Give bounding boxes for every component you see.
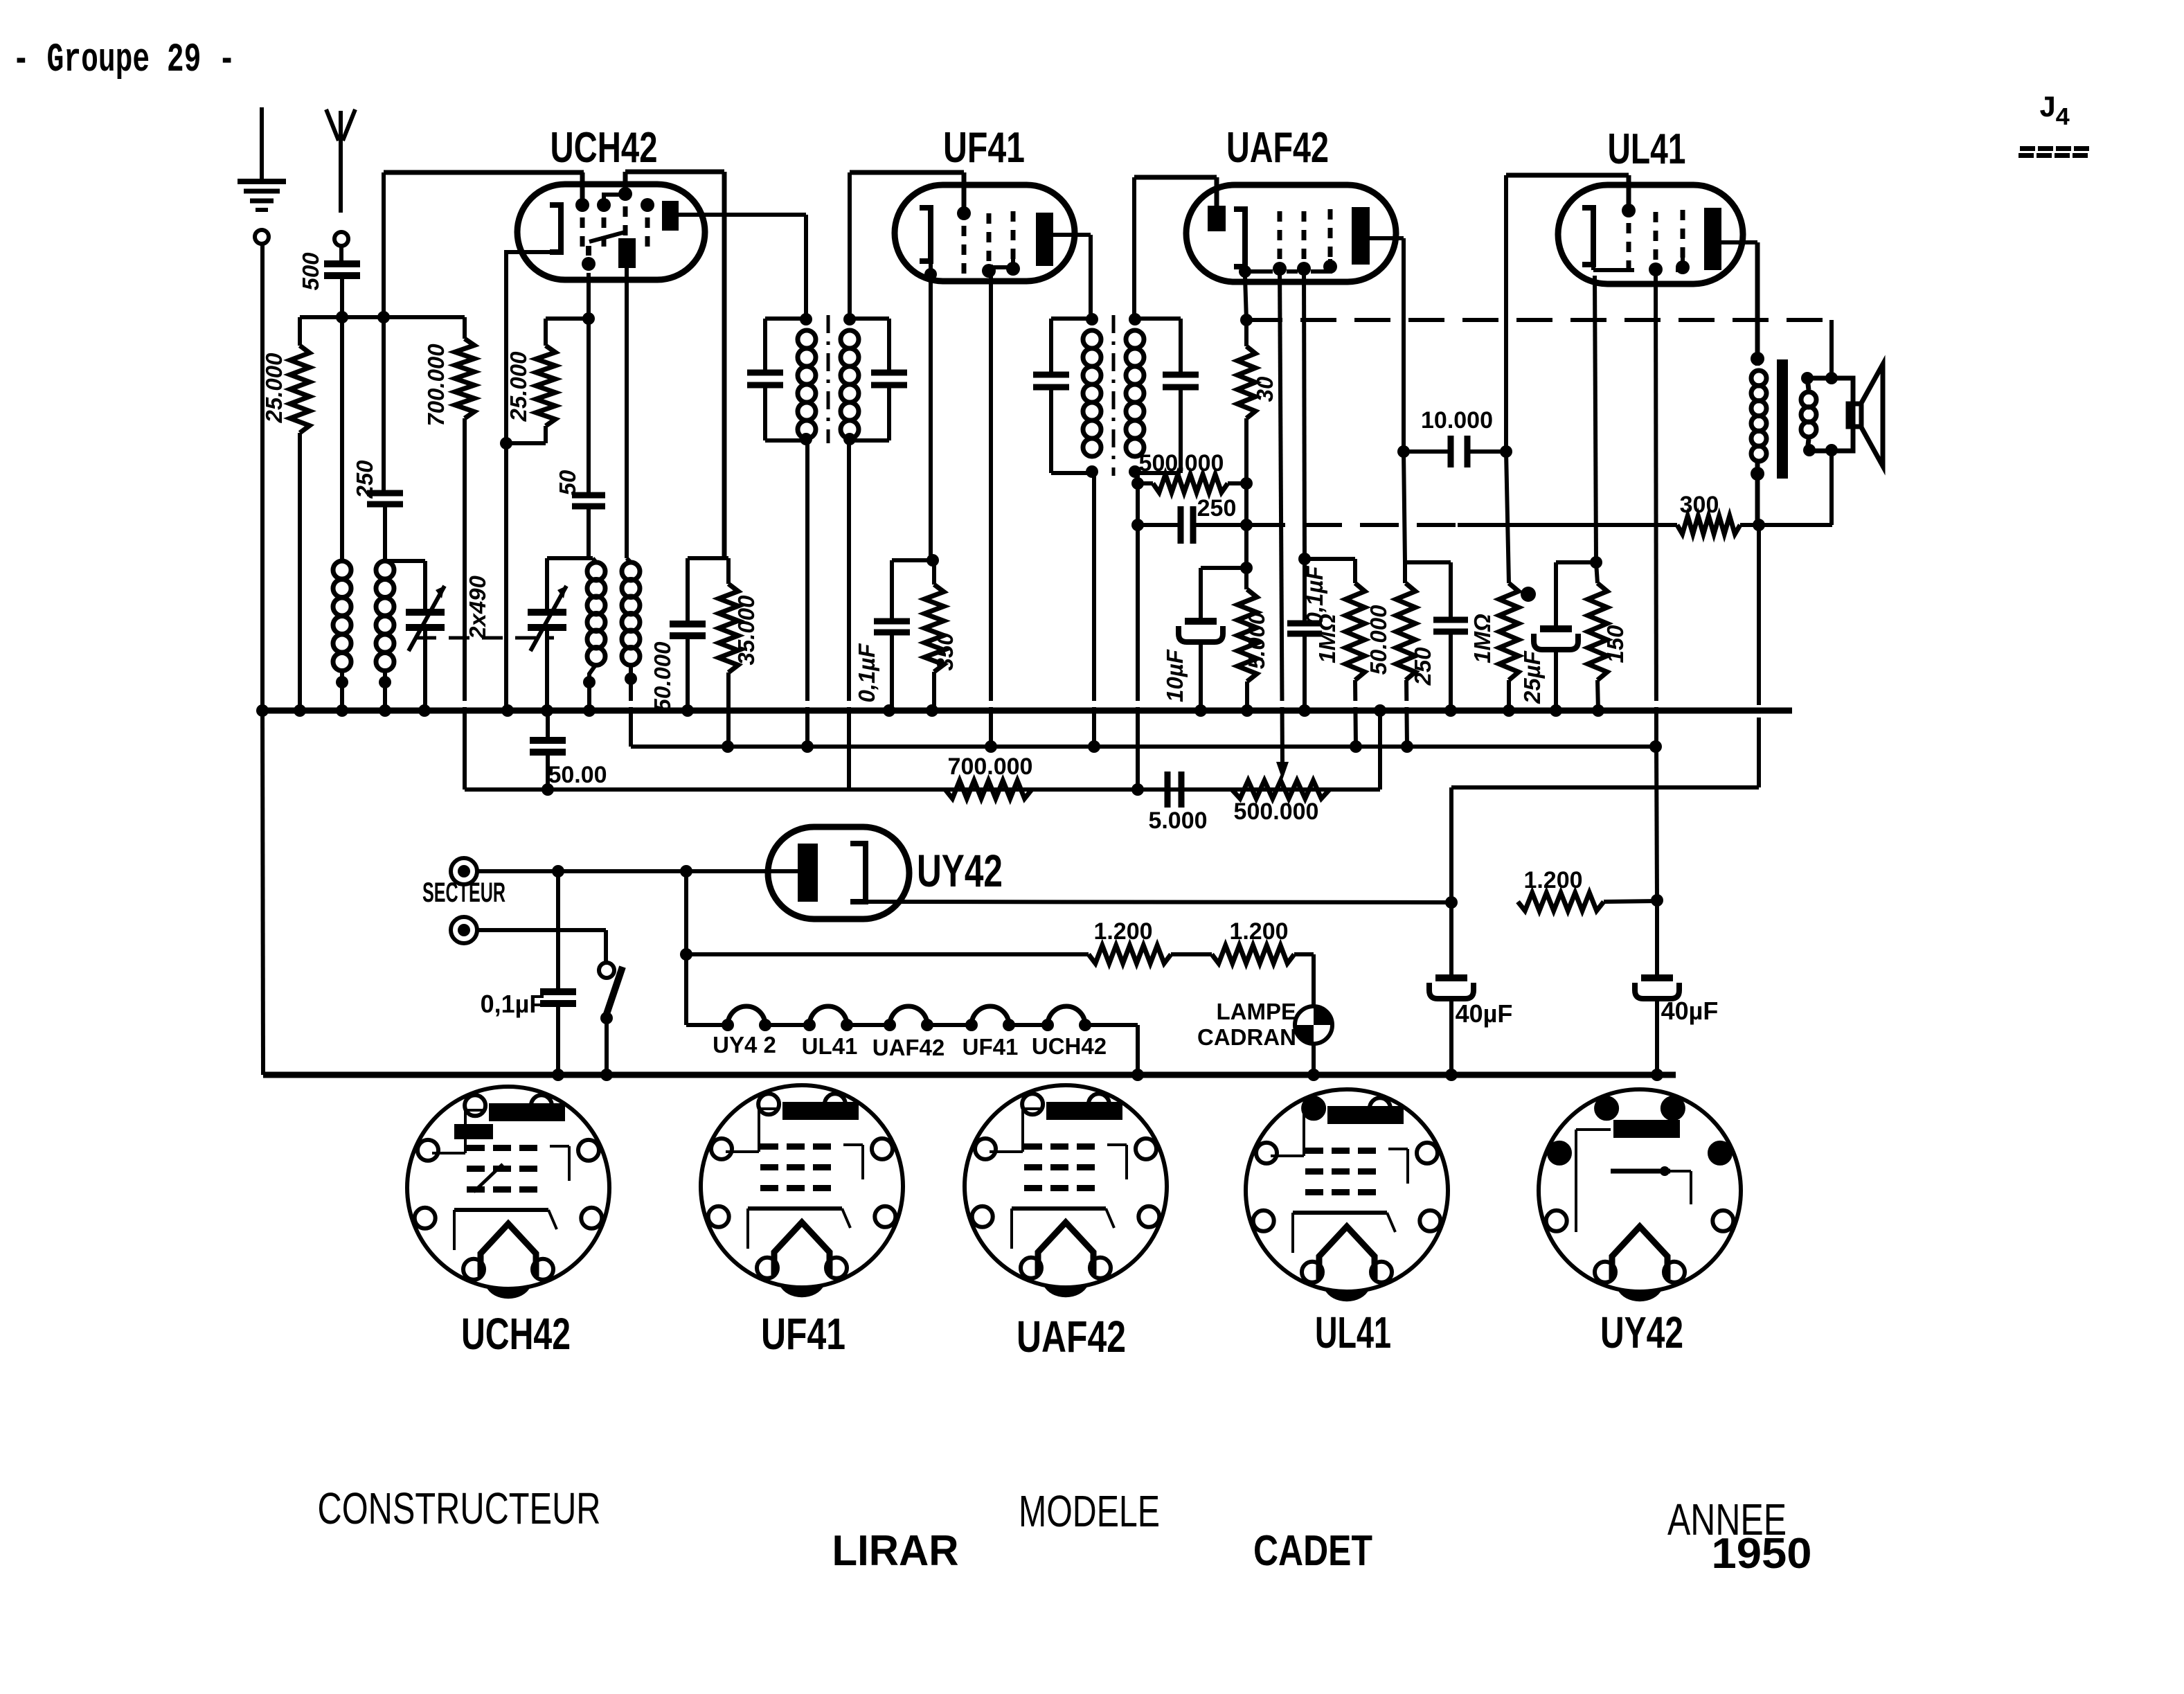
svg-text:25.000: 25.000	[505, 351, 531, 422]
wire varcap2 top	[545, 558, 549, 612]
UCH42 hexode plate wire	[679, 213, 806, 217]
wire top rail 3	[850, 170, 964, 175]
svg-text:30: 30	[1252, 376, 1278, 402]
wire filament start	[684, 954, 688, 1025]
capacitor 500	[324, 260, 360, 267]
resistor 700.000 osc	[455, 339, 474, 418]
UAF42 grid3 column	[1328, 209, 1333, 220]
capacitor 10uF	[1185, 618, 1217, 625]
svg-text:250: 250	[352, 460, 377, 499]
wire Bplus horizontal	[1451, 785, 1759, 790]
wire 30 to node	[1244, 418, 1248, 483]
resistor 50.000 plate	[1403, 562, 1407, 583]
tube UL41 outline	[1558, 185, 1743, 284]
wire AVC to frame	[1829, 320, 1834, 378]
line D left	[1138, 523, 1181, 527]
UCH42 cathode	[550, 205, 561, 252]
UF41 grid3 column	[1011, 211, 1016, 222]
svg-text:1.200: 1.200	[1523, 867, 1582, 893]
wire varcap2 bottom	[545, 627, 549, 711]
wire primary-bottom to Bplus	[1757, 525, 1761, 705]
IFT1 core	[827, 315, 830, 443]
tube UY42 outline	[768, 827, 909, 919]
wire varcap1 top	[423, 561, 427, 612]
UF41 grid2 column	[987, 213, 992, 224]
svg-text:350: 350	[932, 632, 958, 671]
UCH42 cathode wire	[506, 252, 561, 443]
svg-text:1MΩ: 1MΩ	[1314, 614, 1340, 663]
secteur terminal 2	[451, 917, 477, 943]
node 50.000	[1405, 560, 1451, 564]
svg-text:40µF: 40µF	[1661, 997, 1719, 1025]
bus crossing hops	[461, 701, 468, 707]
wire cathode junction	[500, 437, 512, 449]
svg-text:UF41: UF41	[761, 1309, 845, 1359]
wire between droppers	[1171, 952, 1212, 956]
node UF41 cathode	[892, 558, 934, 562]
line B AVC rail	[465, 787, 1380, 792]
IFT2 top right	[1135, 316, 1181, 321]
UCH42 grid4 column	[641, 198, 654, 212]
IFT2 top left	[1051, 316, 1092, 321]
OT secondary coil	[1801, 392, 1816, 407]
svg-text:40µF: 40µF	[1456, 999, 1513, 1028]
svg-text:LIRAR: LIRAR	[832, 1527, 959, 1575]
coil L4 osc plate	[622, 562, 640, 580]
resistor 1M first	[1353, 559, 1357, 583]
wire L4 top bend	[627, 558, 631, 562]
wire 25uF top	[1554, 562, 1558, 629]
wire secteur line 2	[477, 928, 606, 932]
node UL41 cathode row	[1556, 560, 1596, 564]
wire cathode to bus	[504, 443, 508, 711]
resistor 1.200 a	[1089, 945, 1171, 963]
capacitor 0,1uF det	[1303, 559, 1307, 623]
svg-text:1950: 1950	[1712, 1530, 1812, 1578]
variable capacitor 2x490 ant	[406, 609, 445, 616]
IFT2 primary coil	[1083, 330, 1101, 348]
IFT2 bottom left	[1051, 471, 1092, 475]
UL41 grid2 column	[1654, 212, 1658, 222]
UAF42 g2 wire	[1304, 263, 1305, 559]
IFT2 core	[1112, 315, 1116, 476]
svg-text:UCH42: UCH42	[461, 1309, 571, 1359]
wire C250a to coil2	[383, 504, 387, 561]
svg-text:250: 250	[1410, 647, 1435, 686]
IFT1 secondary coil	[841, 330, 859, 348]
svg-text:MODELE: MODELE	[1019, 1486, 1160, 1536]
IFT1 top left	[765, 316, 806, 321]
secteur terminal 1	[451, 858, 477, 884]
IFT1 primary coil	[798, 330, 816, 348]
wire lamp to rail	[1312, 1044, 1316, 1075]
UF41 g2 wire down	[989, 265, 993, 747]
ground symbol	[238, 179, 286, 184]
ground lead wire	[260, 107, 264, 181]
svg-text:250: 250	[1197, 495, 1237, 521]
line D dashed mid	[1246, 523, 1458, 527]
wire L4 bottom to line A	[629, 664, 633, 747]
resistor 1M second	[1506, 452, 1509, 583]
wire secteur line 1	[477, 869, 798, 873]
svg-text:700.000: 700.000	[423, 344, 449, 427]
svg-text:300: 300	[1680, 492, 1719, 518]
wire chain to 10uF node	[1244, 525, 1248, 568]
svg-text:500.000: 500.000	[1234, 799, 1319, 825]
rail dots	[552, 1069, 564, 1081]
svg-text:1.200: 1.200	[1093, 918, 1152, 945]
wire C500 to node	[340, 276, 344, 317]
resistor 700.000 AVC	[945, 781, 1032, 799]
svg-text:LAMPE: LAMPE	[1217, 999, 1297, 1024]
svg-text:1.200: 1.200	[1229, 918, 1288, 945]
svg-text:UL41: UL41	[1608, 125, 1686, 173]
wire cathode chain	[1244, 483, 1248, 525]
UL41 grid1 column	[1627, 175, 1631, 211]
UCH42 hexode plate	[662, 201, 679, 231]
svg-text:UF41: UF41	[943, 124, 1025, 172]
node antenna-coil	[336, 311, 348, 323]
svg-text:25µF: 25µF	[1519, 650, 1545, 704]
speaker cone	[1861, 364, 1883, 466]
svg-text:2x490: 2x490	[465, 575, 490, 639]
speaker frame	[1807, 378, 1853, 451]
IFT2 left side	[1049, 319, 1053, 375]
antenna symbol	[339, 111, 343, 142]
UL41 cathode wire	[1595, 276, 1596, 562]
IFT1 primary bottom wire	[805, 440, 809, 747]
osc node row	[547, 556, 593, 560]
svg-text:5.000: 5.000	[1244, 612, 1269, 669]
IFT1 bottom left	[765, 438, 806, 443]
UCH42 g1 wire down	[587, 273, 591, 495]
wire L2 bottom	[383, 671, 387, 711]
wire x554 rail1 to node	[382, 172, 386, 317]
wire 25uF to bus	[1554, 650, 1558, 711]
UAF42 grid2 column	[1302, 211, 1307, 222]
wire frame bottom down	[1829, 451, 1834, 525]
socket UCH42	[407, 1087, 609, 1289]
svg-text:50.000: 50.000	[1366, 605, 1391, 675]
wire 10uF branch	[1201, 566, 1246, 570]
svg-text:700.000: 700.000	[948, 754, 1033, 780]
resistor 25.000 antenna	[290, 346, 310, 433]
wire 10.000 right	[1467, 449, 1506, 454]
capacitor 0,1uF secteur	[556, 871, 560, 992]
resistor 35.000	[726, 558, 731, 584]
IFT1 left cap	[747, 370, 783, 376]
bus junction dots	[294, 704, 306, 717]
UAF42 cathode-g3 tie	[1239, 265, 1251, 278]
wire 25000a bottom	[298, 433, 302, 711]
coil L2 antenna secondary	[376, 561, 394, 579]
wire rail2 right drop	[722, 172, 727, 558]
UF41 plate	[1036, 213, 1053, 266]
UAF42 plate wire	[1370, 236, 1404, 240]
capacitor 0,1uF UF41	[890, 560, 894, 621]
svg-text:UY42: UY42	[917, 845, 1003, 896]
UL41 grid3 column	[1681, 210, 1685, 220]
UCH42 grid2 column	[597, 198, 611, 212]
socket UAF42	[965, 1085, 1167, 1287]
IFT1 right side	[887, 319, 891, 373]
wire antenna to C500	[339, 246, 343, 264]
tube UAF42 outline	[1186, 185, 1396, 282]
wire rail1 drop to UCH42 g1	[580, 172, 585, 205]
svg-text:UF41: UF41	[963, 1034, 1019, 1060]
IFT2 right cap	[1163, 372, 1199, 378]
bottom rail	[263, 1072, 1676, 1078]
UCH42 g2-g3 tie	[604, 195, 624, 205]
UY42 plate wire	[768, 869, 798, 873]
svg-text:J: J	[2039, 91, 2057, 126]
wire varcap1 bottom	[423, 627, 427, 711]
resistor 30	[1244, 320, 1248, 346]
UL41 g2 wire	[1656, 263, 1656, 747]
svg-text:UY42: UY42	[1600, 1308, 1683, 1357]
svg-text:0,1µF: 0,1µF	[481, 990, 545, 1018]
UL41 plate wire	[1721, 240, 1757, 244]
wire 10uF to bus	[1199, 643, 1203, 711]
AVC dashed line	[1240, 314, 1253, 326]
svg-text:UY4 2: UY4 2	[713, 1032, 776, 1058]
UAF42 diode plate	[1208, 206, 1226, 231]
UAF42 grid1 column	[1278, 211, 1282, 222]
coil L3 osc grid	[587, 562, 605, 580]
resistor 1.200 b	[1212, 945, 1294, 963]
capacitor 5.000	[1165, 772, 1171, 808]
resistor 25.000 cathode	[536, 346, 555, 426]
wire coil2-varcap1 link	[385, 559, 425, 563]
UF41 g3 tie	[990, 258, 1013, 267]
switch contact	[599, 963, 614, 978]
wire switch to rail	[605, 1018, 609, 1075]
variable capacitor 2x490 osc	[528, 609, 566, 616]
UCH42 grid1 column	[575, 198, 589, 212]
capacitor 10.000	[1448, 436, 1454, 467]
OT primary coil	[1751, 371, 1766, 386]
capacitor 50	[572, 492, 605, 499]
svg-text:5.000: 5.000	[1148, 808, 1207, 834]
IFT1 top right	[850, 316, 889, 321]
coil L1 antenna primary	[333, 561, 351, 579]
UL41 cathode-g3 tie	[1591, 265, 1595, 270]
wire node to C250a	[382, 317, 386, 493]
resistor 300	[1677, 516, 1740, 534]
UL41 plate	[1704, 208, 1721, 270]
svg-text:UL41: UL41	[1315, 1308, 1391, 1357]
IFT1 bottom right	[850, 438, 889, 443]
wire 700k top corner	[463, 317, 467, 339]
line A screen rail	[631, 745, 1656, 749]
node x554	[377, 311, 390, 323]
resistor 5.000 cathode	[1244, 568, 1248, 589]
capacitor 25uF	[1540, 625, 1572, 632]
svg-text:25.000: 25.000	[261, 353, 287, 424]
wire plate chain	[1404, 452, 1405, 562]
svg-text:CADET: CADET	[1253, 1527, 1372, 1575]
svg-text:- Groupe 29 -: - Groupe 29 -	[12, 38, 235, 83]
resistor 1.200 filter	[1518, 893, 1604, 911]
IFT2 bottom right	[1135, 471, 1181, 475]
wire top rail 1	[384, 170, 584, 175]
node 991	[680, 865, 692, 877]
potentiometer 500.000	[1232, 781, 1330, 799]
UY42 cathode wire	[866, 902, 1451, 902]
wire 700k bottom to line B	[463, 418, 467, 790]
resistor 500.000 diode load	[1138, 481, 1153, 485]
UY42 plate	[798, 844, 818, 902]
svg-text:50.00: 50.00	[548, 762, 607, 788]
UCH42 triode plate	[618, 238, 636, 268]
wire dropper to lamp	[1294, 952, 1314, 956]
svg-text:10.000: 10.000	[1421, 407, 1493, 434]
IFT1 right cap	[871, 370, 907, 376]
wire rail2 drop into tube	[623, 172, 628, 194]
svg-text:4: 4	[2055, 104, 2070, 132]
IFT1 secondary bottom wire	[847, 440, 851, 790]
IFT1 secondary top wire	[848, 172, 852, 319]
capacitor 50.000	[686, 558, 690, 624]
UL41 cathode	[1582, 208, 1593, 265]
wire g2 node row	[1305, 557, 1355, 561]
svg-text:1MΩ: 1MΩ	[1469, 614, 1495, 663]
line B dots	[541, 783, 554, 796]
UY42 cathode	[850, 844, 866, 902]
IFT2 left cap	[1033, 372, 1069, 378]
svg-text:UAF42: UAF42	[1226, 124, 1329, 172]
svg-text:0,1µF: 0,1µF	[854, 643, 879, 703]
svg-text:UL41: UL41	[802, 1033, 858, 1059]
ground to rail corner	[262, 711, 263, 1075]
node y806 right	[688, 556, 728, 560]
ground terminal	[255, 230, 269, 244]
capacitor 40uF 2	[1655, 900, 1659, 978]
svg-text:500: 500	[298, 252, 323, 291]
node 806	[552, 865, 564, 877]
svg-text:UAF42: UAF42	[1017, 1312, 1126, 1362]
svg-text:500.000: 500.000	[1139, 450, 1224, 476]
UF41 cathode wire	[929, 261, 933, 560]
filament chain	[726, 1023, 730, 1027]
tube UCH42 outline	[517, 184, 705, 280]
UCH42 triode grid diagonal	[589, 232, 625, 242]
socket UL41	[1246, 1089, 1448, 1292]
UF41 plate wire	[1053, 233, 1091, 237]
wire Bplus down	[1449, 787, 1453, 902]
capacitor 50.00	[546, 711, 550, 740]
wire 25000a top drop	[298, 317, 302, 346]
socket UF41	[701, 1085, 903, 1287]
svg-text:UAF42: UAF42	[872, 1035, 945, 1060]
wire primary bottom	[1755, 463, 1760, 525]
capacitor 40uF 1	[1449, 902, 1453, 978]
gang dash line	[415, 636, 554, 640]
IFT2 secondary coil	[1126, 330, 1144, 348]
OT core	[1777, 359, 1788, 479]
main bus overdraw	[262, 708, 1792, 714]
capacitor 250 UL41	[1449, 562, 1453, 620]
wire UL41 grid top	[1506, 173, 1629, 178]
UAF42 cathode	[1234, 209, 1245, 267]
IFT2 primary bottom wire	[1092, 473, 1096, 747]
resistor 150	[1596, 562, 1597, 583]
svg-text:50: 50	[555, 470, 580, 495]
J4 underline	[2020, 146, 2035, 151]
wire C50 to osc node	[587, 506, 591, 558]
IFT2 right side	[1179, 319, 1183, 375]
ink blob	[1521, 587, 1536, 602]
wire 25k top row	[544, 319, 548, 346]
wire 10.000 left	[1404, 449, 1451, 454]
tube UF41 outline	[895, 185, 1075, 281]
svg-text:UCH42: UCH42	[551, 124, 658, 172]
UCH42 grid3 column	[618, 187, 632, 201]
line A dots	[722, 740, 734, 753]
UAF42 g1 wire	[1280, 263, 1282, 765]
svg-text:10µF: 10µF	[1162, 649, 1188, 702]
svg-text:CADRAN: CADRAN	[1197, 1024, 1296, 1050]
capacitor 250 det	[1178, 506, 1184, 544]
main bus	[262, 708, 1792, 714]
antenna terminal	[334, 232, 348, 246]
IFT2 secondary bottom wire	[1136, 473, 1140, 790]
socket UY42	[1539, 1089, 1741, 1292]
node B+ raw	[1445, 896, 1458, 909]
wire antenna node down to coil1	[340, 317, 344, 561]
wire node row y458	[300, 315, 465, 319]
UCH42 triode plate wire	[625, 268, 629, 558]
capacitor 250 (antenna)	[367, 490, 403, 497]
wire primary top	[1755, 242, 1760, 366]
wire L3 top bend	[593, 558, 596, 562]
wire L3 bottom	[589, 664, 596, 711]
svg-text:50.000: 50.000	[650, 641, 675, 712]
svg-text:150: 150	[1602, 625, 1628, 663]
UCH42 triode grid dashes	[586, 246, 591, 256]
lamp cadran symbol	[1295, 1006, 1332, 1044]
resistor 350	[932, 560, 936, 585]
UF41 grid1 column	[962, 172, 967, 213]
svg-text:UCH42: UCH42	[1032, 1033, 1107, 1059]
wire top rail 2	[625, 170, 724, 175]
svg-text:SECTEUR: SECTEUR	[422, 877, 505, 908]
UF41 cathode	[920, 208, 931, 261]
svg-text:35.000: 35.000	[733, 595, 759, 666]
wire UAF42 diode top	[1134, 175, 1217, 180]
UAF42 plate	[1352, 207, 1370, 265]
svg-text:CONSTRUCTEUR: CONSTRUCTEUR	[318, 1483, 601, 1533]
UAF42 cathode wire	[1245, 277, 1246, 320]
IFT2 secondary top wire	[1132, 177, 1136, 319]
wire L1 bottom	[340, 671, 344, 711]
frame dots	[1801, 372, 1814, 384]
speaker driver	[1848, 404, 1861, 427]
IFT1 left side	[763, 319, 767, 373]
wiper arrowhead	[1276, 762, 1289, 780]
wire filament dropper	[684, 871, 688, 954]
switch blade	[605, 967, 623, 1018]
